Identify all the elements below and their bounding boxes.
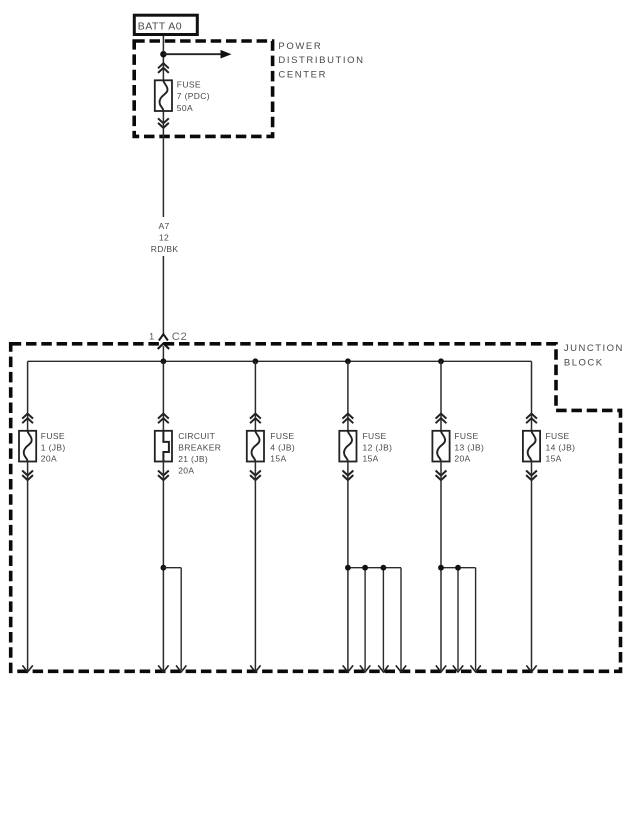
fuse F12 (JB) 15A xyxy=(339,431,356,462)
junction block dashed box xyxy=(11,344,621,672)
svg-text:15A: 15A xyxy=(363,454,379,464)
wire column fuse 1 xyxy=(27,361,29,431)
arrow out fuse 13 branch c xyxy=(470,665,480,672)
svg-text:BLOCK: BLOCK xyxy=(564,358,604,369)
svg-text:12 (JB): 12 (JB) xyxy=(363,442,393,452)
svg-text:FUSE: FUSE xyxy=(177,80,201,90)
svg-text:RD/BK: RD/BK xyxy=(151,244,179,254)
wire fuse 12 to bottom xyxy=(347,462,349,671)
node dot bus at fuse 12 column xyxy=(345,358,351,364)
chevrons below fuse 4 xyxy=(250,471,261,481)
wire breaker 21 to bottom xyxy=(162,462,164,671)
wire from fuse 7 down to label gap xyxy=(162,111,164,217)
arrow out fuse 4 xyxy=(250,665,260,672)
fuse F4 (JB) 15A xyxy=(247,431,264,462)
node dot bus at fuse 13 column xyxy=(438,358,444,364)
node dot bus at fuse 4 column xyxy=(253,358,259,364)
svg-text:JUNCTION: JUNCTION xyxy=(564,343,624,354)
fuse F1 (JB) 20A xyxy=(19,431,36,462)
wire fuse 4 to bottom xyxy=(254,462,256,671)
power distribution center dashed box xyxy=(134,41,272,136)
svg-text:BATT A0: BATT A0 xyxy=(138,21,182,33)
wire column fuse 14 xyxy=(531,361,533,431)
svg-text:CENTER: CENTER xyxy=(278,69,327,80)
svg-text:POWER: POWER xyxy=(278,41,322,52)
chevrons above breaker 21 xyxy=(158,414,169,424)
label JUNCTION BLOCK xyxy=(564,343,624,369)
node dot fuse 13 branch a xyxy=(438,565,444,571)
arrow out fuse 13 branch b xyxy=(453,665,463,672)
label FUSE 12 (JB) 15A xyxy=(363,431,393,464)
svg-text:20A: 20A xyxy=(178,466,194,476)
arrow out fuse 14 xyxy=(526,665,536,672)
chevrons below breaker 21 xyxy=(158,471,169,481)
chevrons below fuse 12 xyxy=(343,471,354,481)
fuse F13 (JB) 20A xyxy=(432,431,449,462)
chevrons above fuse 4 xyxy=(250,414,261,424)
bus wire inside junction block xyxy=(28,360,532,362)
label FUSE 14 (JB) 15A xyxy=(546,431,576,464)
svg-text:12: 12 xyxy=(159,233,169,243)
wire branch from breaker column xyxy=(163,568,181,670)
wire arrow to other circuits xyxy=(163,50,231,59)
svg-text:7 (PDC): 7 (PDC) xyxy=(177,91,210,101)
svg-text:FUSE: FUSE xyxy=(454,431,478,441)
node dot bus at breaker column xyxy=(161,358,167,364)
wire fuse 14 to bottom xyxy=(531,462,533,671)
wire branch bus fuse 12 xyxy=(348,568,401,670)
svg-text:4 (JB): 4 (JB) xyxy=(270,442,295,452)
wire fuse 13 to bottom xyxy=(440,462,442,671)
label FUSE 1 (JB) 20A xyxy=(41,431,66,464)
node dot breaker branch xyxy=(161,565,167,571)
chevrons above fuse 12 xyxy=(343,414,354,424)
svg-text:50A: 50A xyxy=(177,103,193,113)
arrow out fuse 13 main xyxy=(436,665,446,672)
svg-text:FUSE: FUSE xyxy=(363,431,387,441)
label FUSE 4 (JB) 15A xyxy=(270,431,295,464)
svg-text:C2: C2 xyxy=(172,331,187,343)
svg-text:A7: A7 xyxy=(158,221,169,231)
wire from BATT A0 to fuse 7 xyxy=(162,36,164,81)
wire from connector C2 to bus xyxy=(162,346,164,361)
chevrons above fuse 1 xyxy=(22,414,33,424)
chevrons below fuse 1 xyxy=(22,471,33,481)
fuse F7 (PDC) 50A xyxy=(155,80,172,111)
svg-text:13 (JB): 13 (JB) xyxy=(454,442,484,452)
arrow out breaker main xyxy=(158,665,168,672)
svg-text:1: 1 xyxy=(149,331,154,341)
arrow out fuse 12 branch d xyxy=(396,665,406,672)
wire column fuse 4 xyxy=(254,361,256,431)
svg-text:20A: 20A xyxy=(41,454,57,464)
wire column fuse 12 xyxy=(347,361,349,431)
wire fuse 1 to bottom xyxy=(27,462,29,671)
label FUSE 7 (PDC) 50A xyxy=(177,80,210,113)
wire column fuse 13 xyxy=(440,361,442,431)
wire label A7 12 RD/BK xyxy=(151,221,179,254)
label POWER DISTRIBUTION CENTER xyxy=(278,41,364,80)
svg-text:BREAKER: BREAKER xyxy=(178,442,221,452)
svg-text:15A: 15A xyxy=(270,454,286,464)
chevrons below fuse 14 xyxy=(526,471,537,481)
current direction chevrons above fuse 7 xyxy=(158,63,169,73)
node dot fuse 12 branch a xyxy=(345,565,351,571)
current direction chevrons below fuse 7 xyxy=(158,118,169,128)
connector C2 female half xyxy=(159,334,168,340)
wire column circuit breaker 21 xyxy=(162,361,164,431)
svg-text:20A: 20A xyxy=(454,454,470,464)
chevrons above fuse 14 xyxy=(526,414,537,424)
svg-text:14 (JB): 14 (JB) xyxy=(546,442,576,452)
circuit breaker CB21 (JB) 20A xyxy=(155,431,172,462)
arrow out breaker branch xyxy=(176,665,186,672)
svg-text:15A: 15A xyxy=(546,454,562,464)
connector C2 male arrow xyxy=(158,343,169,349)
arrow out fuse 12 branch c xyxy=(378,665,388,672)
label FUSE 13 (JB) 20A xyxy=(454,431,484,464)
battery feed box BATT A0 xyxy=(134,15,197,34)
chevrons above fuse 13 xyxy=(436,414,447,424)
svg-text:FUSE: FUSE xyxy=(41,431,65,441)
label CIRCUIT BREAKER 21 (JB) 20A xyxy=(178,431,221,476)
svg-text:1 (JB): 1 (JB) xyxy=(41,442,66,452)
fuse F14 (JB) 15A xyxy=(523,431,540,462)
svg-text:21 (JB): 21 (JB) xyxy=(178,454,208,464)
svg-text:CIRCUIT: CIRCUIT xyxy=(178,431,215,441)
wire from label gap to connector C2 xyxy=(162,256,164,334)
node junction dot at PDC feed xyxy=(160,51,166,57)
wire branch bus fuse 13 xyxy=(441,568,476,670)
svg-text:FUSE: FUSE xyxy=(270,431,294,441)
node dot fuse 12 branch b xyxy=(362,565,368,571)
arrow out fuse 12 branch b xyxy=(360,665,370,672)
chevrons below fuse 13 xyxy=(436,471,447,481)
arrow out fuse 1 xyxy=(22,665,32,672)
svg-text:DISTRIBUTION: DISTRIBUTION xyxy=(278,55,364,66)
arrow out fuse 12 main xyxy=(343,665,353,672)
svg-text:FUSE: FUSE xyxy=(546,431,570,441)
node dot fuse 12 branch c xyxy=(381,565,387,571)
node dot fuse 13 branch b xyxy=(455,565,461,571)
